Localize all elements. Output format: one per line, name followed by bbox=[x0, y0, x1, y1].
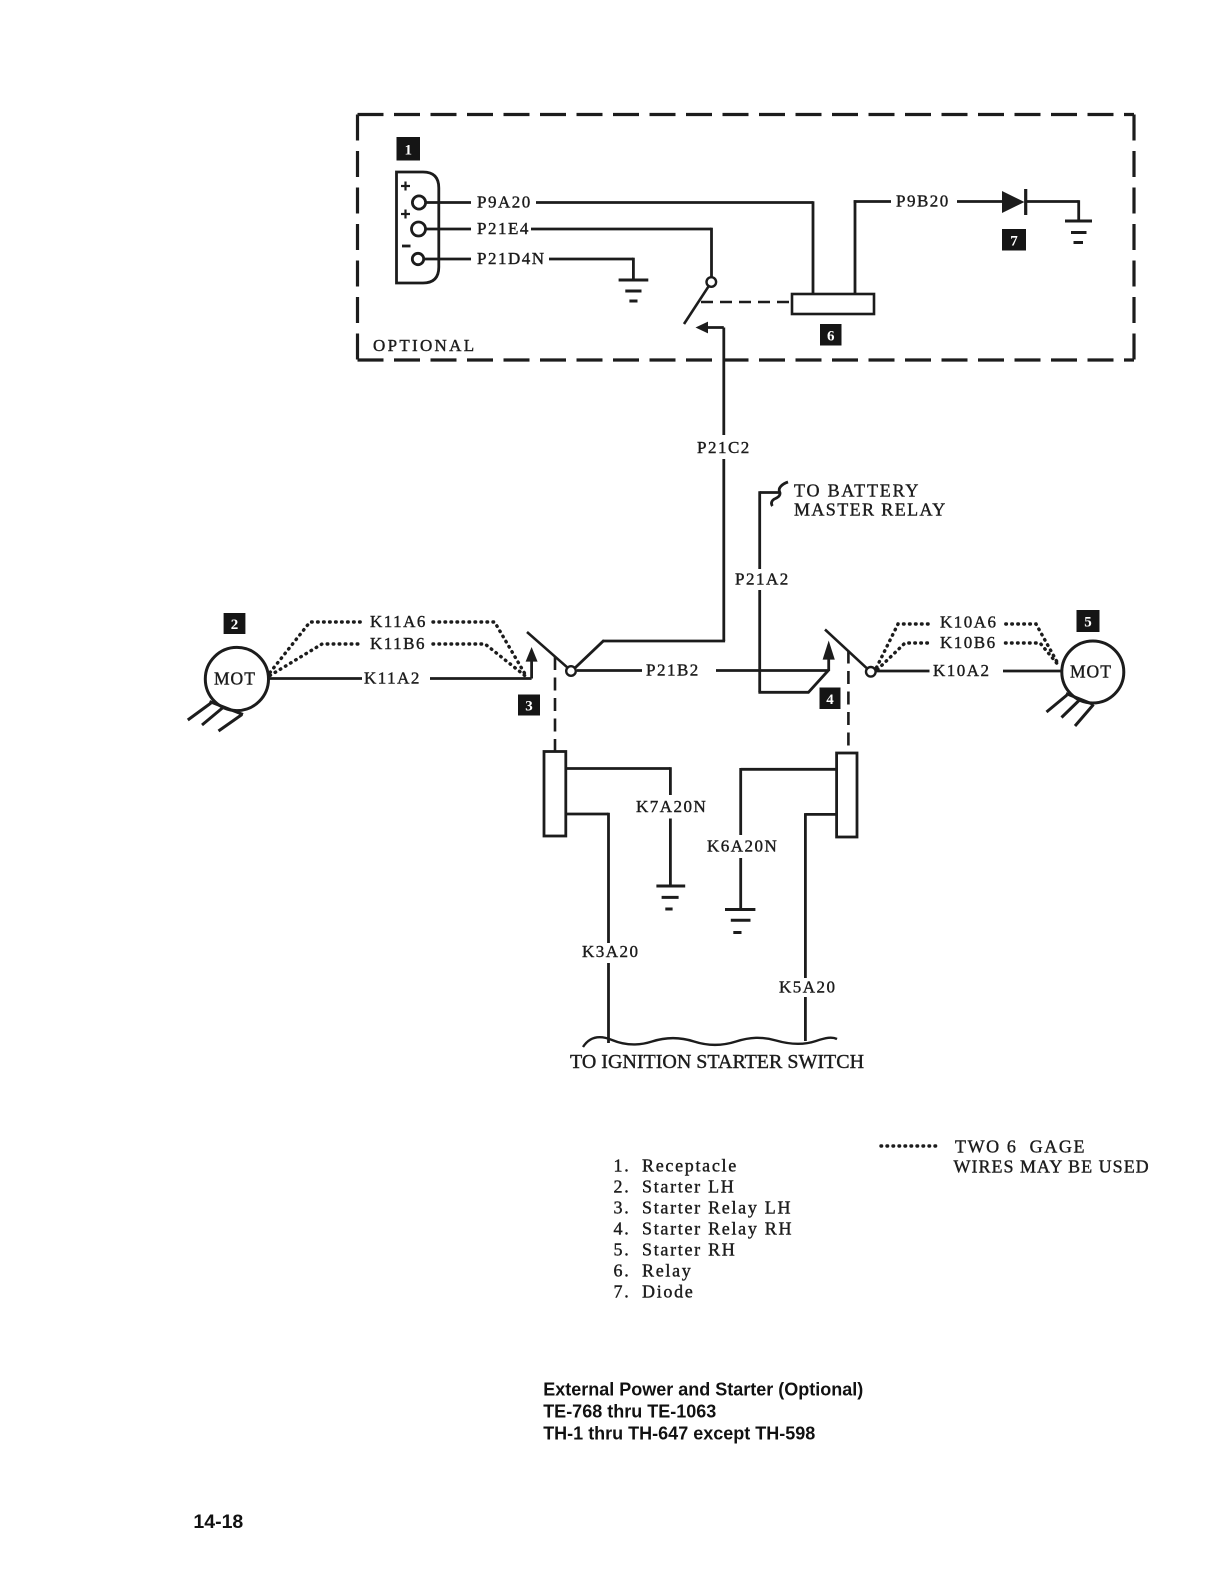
item tag 2 bbox=[224, 613, 246, 634]
chassis ground hatch (MOT 5) bbox=[1047, 694, 1094, 727]
receptacle U1 body bbox=[397, 172, 439, 283]
figure caption bbox=[543, 1380, 863, 1444]
wire K5A20 bbox=[805, 813, 836, 1041]
svg-text:P9B20: P9B20 bbox=[896, 192, 950, 211]
arrow into switch from P21C2 bbox=[696, 322, 724, 334]
pin + (top) bbox=[401, 182, 410, 191]
legend dotted sample bbox=[881, 1144, 939, 1147]
relay K6 coil box bbox=[792, 294, 874, 314]
wire P21D4N bbox=[424, 258, 633, 280]
svg-text:TO IGNITION STARTER SWITCH: TO IGNITION STARTER SWITCH bbox=[570, 1051, 864, 1073]
dashed actuation link relay 3 bbox=[554, 657, 557, 751]
svg-text:K3A20: K3A20 bbox=[582, 942, 640, 961]
diode CR1 bbox=[1002, 189, 1026, 215]
wire K3A20 bbox=[566, 813, 609, 1043]
ground (K7A20N) bbox=[656, 886, 685, 909]
svg-text:7: 7 bbox=[1010, 234, 1018, 250]
svg-text:6.Relay: 6.Relay bbox=[614, 1260, 693, 1280]
svg-text:TE-768 thru TE-1063: TE-768 thru TE-1063 bbox=[543, 1402, 716, 1422]
svg-text:MOT: MOT bbox=[214, 669, 256, 689]
svg-text:K5A20: K5A20 bbox=[779, 978, 837, 997]
svg-text:P9A20: P9A20 bbox=[477, 193, 532, 212]
item tag 6 bbox=[820, 324, 842, 346]
starter relay LH contact (switch 3) bbox=[527, 632, 576, 676]
ground (K6A20N) bbox=[725, 910, 755, 933]
wire K10A2 bbox=[876, 670, 1061, 673]
svg-text:TWO 6 GAGE: TWO 6 GAGE bbox=[955, 1137, 1086, 1157]
wire K11A6 (6 gage dotted) bbox=[270, 622, 526, 675]
svg-text:P21B2: P21B2 bbox=[646, 661, 700, 680]
note TO BATTERY MASTER RELAY bbox=[794, 481, 947, 520]
svg-text:14-18: 14-18 bbox=[193, 1511, 243, 1533]
svg-text:6: 6 bbox=[827, 329, 835, 345]
svg-text:3: 3 bbox=[525, 699, 533, 715]
wire P9A20 bbox=[426, 201, 813, 294]
wire K7A20N bbox=[566, 767, 670, 886]
wire-continuation squiggle (to battery master relay) bbox=[772, 482, 789, 506]
item tag 3 bbox=[518, 695, 540, 716]
svg-text:K7A20N: K7A20N bbox=[636, 797, 707, 816]
ground (diode) bbox=[1065, 221, 1092, 243]
relay K3 coil (left) bbox=[544, 752, 566, 837]
item tag 7 bbox=[1002, 229, 1026, 251]
starter relay RH contact (switch 4) bbox=[825, 630, 876, 677]
wire P21B2 bbox=[577, 669, 829, 672]
pin - (bottom) bbox=[402, 245, 411, 248]
svg-text:TH-1 thru TH-647 except TH-598: TH-1 thru TH-647 except TH-598 bbox=[543, 1424, 815, 1444]
svg-text:K10A2: K10A2 bbox=[933, 661, 991, 680]
svg-text:K10A6: K10A6 bbox=[940, 613, 998, 632]
svg-text:External Power and Starter (Op: External Power and Starter (Optional) bbox=[543, 1380, 863, 1400]
svg-text:WIRES MAY BE USED: WIRES MAY BE USED bbox=[954, 1157, 1150, 1177]
svg-text:K11A2: K11A2 bbox=[364, 669, 421, 688]
break (wavy) line to ignition starter switch bbox=[583, 1037, 837, 1047]
svg-text:K10B6: K10B6 bbox=[940, 633, 997, 652]
svg-text:MOT: MOT bbox=[1070, 662, 1112, 682]
pin terminal C bbox=[412, 253, 423, 264]
wire K10B6 (6 gage dotted) bbox=[878, 643, 1060, 670]
starter motor LH (MOT 2) bbox=[205, 647, 268, 710]
wire K11A2 bbox=[269, 677, 532, 680]
pin + (middle) bbox=[401, 210, 410, 219]
pin terminal B bbox=[412, 222, 426, 236]
svg-text:K11A6: K11A6 bbox=[370, 612, 427, 631]
wire K11B6 (6 gage dotted) bbox=[270, 644, 525, 676]
chassis ground hatch (MOT 2) bbox=[188, 702, 243, 732]
wire P9B20 bbox=[854, 200, 1079, 294]
svg-text:P21C2: P21C2 bbox=[697, 438, 751, 457]
item tag 4 bbox=[820, 688, 841, 710]
wire P21C2 bbox=[575, 328, 725, 668]
svg-text:K6A20N: K6A20N bbox=[707, 837, 778, 856]
item tag 1 bbox=[397, 137, 421, 161]
pin terminal A bbox=[412, 196, 425, 209]
wire P21E4 bbox=[426, 228, 712, 277]
item tag 5 bbox=[1077, 610, 1100, 632]
svg-text:4: 4 bbox=[826, 692, 834, 708]
svg-text:P21D4N: P21D4N bbox=[477, 249, 546, 268]
svg-text:K11B6: K11B6 bbox=[370, 634, 426, 653]
wire K10A6 (6 gage dotted) bbox=[877, 624, 1059, 668]
svg-text:P21A2: P21A2 bbox=[735, 570, 790, 589]
svg-text:MASTER RELAY: MASTER RELAY bbox=[794, 500, 947, 520]
dashed actuation link to relay 6 bbox=[701, 301, 792, 304]
svg-text:7.Diode: 7.Diode bbox=[614, 1281, 695, 1301]
wire K6A20N bbox=[741, 768, 837, 910]
starter motor RH (MOT 5) bbox=[1062, 641, 1124, 703]
svg-text:5: 5 bbox=[1084, 615, 1092, 631]
legend note TWO 6 GAGE WIRES MAY BE USED bbox=[954, 1137, 1150, 1177]
svg-text:P21E4: P21E4 bbox=[477, 219, 530, 238]
dashed actuation link relay 4 bbox=[847, 651, 850, 753]
arrow into switch 3 bbox=[526, 647, 538, 679]
switch contact (relay 6 operated) bbox=[684, 277, 716, 324]
svg-text:OPTIONAL: OPTIONAL bbox=[373, 336, 476, 355]
arrow into switch 4 bbox=[823, 641, 835, 672]
legend list bbox=[614, 1155, 794, 1301]
svg-text:TO BATTERY: TO BATTERY bbox=[794, 481, 920, 501]
relay K4 coil (right) bbox=[837, 753, 857, 837]
ground (P21D4N) bbox=[619, 280, 649, 301]
svg-text:1: 1 bbox=[405, 142, 413, 158]
svg-text:2: 2 bbox=[231, 617, 239, 633]
optional enclosure dashed box bbox=[358, 115, 1135, 361]
wire P21A2 bbox=[758, 491, 828, 693]
